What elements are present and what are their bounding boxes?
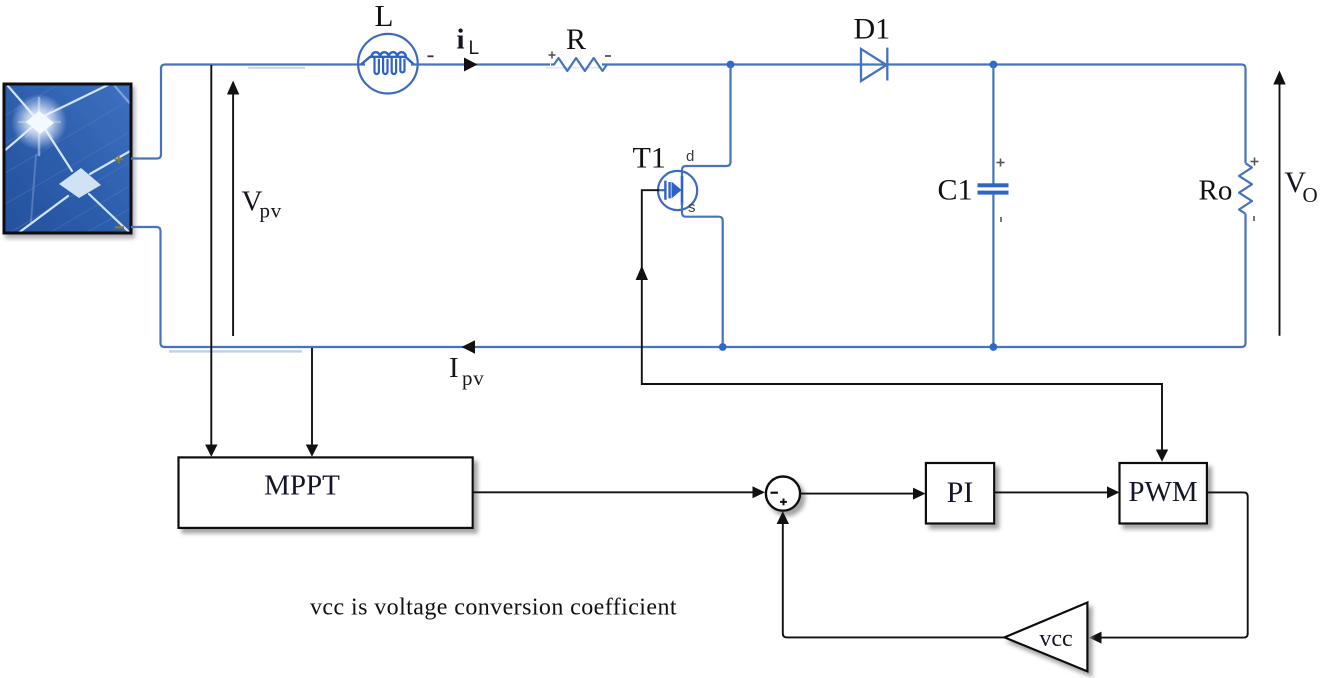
inductor L	[358, 34, 418, 94]
current arrow Ipv	[462, 340, 476, 354]
svg-text:pv: pv	[462, 366, 485, 390]
svg-text:vcc: vcc	[1039, 626, 1072, 652]
svg-text:L: L	[375, 0, 394, 33]
svg-text:vcc is voltage conversion coef: vcc is voltage conversion coefficient	[310, 595, 677, 621]
capacitor minus tick	[1000, 217, 1002, 222]
resistor R minus mark	[605, 55, 611, 57]
gain block vcc	[1005, 603, 1088, 672]
PWM block	[1120, 463, 1207, 524]
bright cell node (sun glint)	[11, 94, 67, 150]
svg-text:L: L	[469, 38, 480, 59]
current arrow iL	[464, 58, 478, 72]
highlight remnant top 2	[546, 67, 600, 69]
MPPT block	[179, 457, 473, 528]
gate line up-arrow	[636, 266, 648, 281]
panel - terminal	[115, 226, 124, 228]
node: top bus / mosfet drain	[727, 61, 735, 69]
wire mosfet drain	[682, 65, 731, 180]
svg-text:R: R	[566, 23, 586, 56]
measurement line A (Vpv sense)	[210, 65, 212, 445]
svg-text:C1: C1	[938, 174, 973, 207]
Ro minus tick	[1253, 216, 1255, 221]
arrow into sum bottom	[777, 511, 789, 524]
node: bottom bus / mosfet source	[719, 343, 727, 351]
wire capacitor top	[992, 65, 994, 184]
arrow into PWM	[1107, 486, 1120, 498]
mosfet T1	[658, 171, 697, 210]
arrow into sum	[753, 486, 766, 498]
svg-text:PWM: PWM	[1128, 476, 1197, 508]
lower light diamond cell node	[59, 168, 101, 198]
wire vcc gain to sum	[783, 524, 1005, 638]
capacitor plus mark	[997, 159, 1005, 167]
arrow into PWM top	[1156, 450, 1168, 462]
svg-text:O: O	[1303, 183, 1318, 207]
resistor R	[551, 58, 607, 71]
diode D1	[861, 48, 887, 81]
wire top bus right segment + right bus upper	[602, 65, 1246, 164]
wire sum to PI	[800, 493, 913, 495]
summing junction S1	[766, 477, 800, 511]
svg-text:D1: D1	[854, 13, 891, 46]
svg-text:MPPT: MPPT	[264, 470, 340, 502]
svg-text:I: I	[449, 352, 459, 384]
svg-text:PI: PI	[947, 476, 974, 509]
arrow into vcc gain	[1089, 632, 1102, 644]
resistor Ro	[1239, 163, 1252, 213]
svg-text:T1: T1	[633, 142, 666, 175]
wire PI to PWM	[994, 491, 1107, 493]
solar panel PV module	[0, 72, 140, 258]
node: bottom bus / capacitor	[990, 343, 998, 351]
Ro plus mark	[1251, 158, 1259, 166]
wire PV plus lead	[131, 67, 161, 159]
arrow into MPPT from line B	[306, 445, 318, 457]
Vo arrow	[1273, 71, 1285, 336]
wire MPPT to sum	[473, 491, 753, 493]
wire PV minus lead	[131, 227, 166, 347]
lens flare rays	[19, 98, 60, 222]
Vpv arrow	[227, 81, 239, 337]
PI block	[926, 463, 994, 524]
svg-text:Ro: Ro	[1199, 175, 1233, 207]
wire right bus lower + bottom bus	[165, 214, 1246, 347]
svg-text:s: s	[688, 199, 696, 216]
svg-text:pv: pv	[260, 199, 283, 223]
arrow into PI	[913, 488, 926, 500]
resistor R plus mark	[549, 52, 556, 59]
arrow into MPPT from line A	[205, 445, 217, 457]
wire mosfet source	[682, 202, 723, 347]
gate drive line	[642, 190, 1162, 450]
wire capacitor bottom	[992, 195, 994, 347]
highlight remnant bottom	[169, 350, 302, 352]
svg-text:i: i	[457, 24, 465, 56]
capacitor C1	[978, 183, 1009, 194]
panel + terminal	[115, 155, 124, 163]
svg-text:d: d	[686, 148, 694, 165]
measurement line B (Ipv sense)	[311, 348, 313, 445]
wire PWM output feedback	[1101, 492, 1248, 637]
wire top bus middle segment	[411, 63, 550, 65]
highlight remnant top	[248, 67, 305, 69]
wire top bus left segment	[161, 65, 365, 69]
minus after inductor	[428, 55, 434, 57]
node: top bus / capacitor	[990, 61, 998, 69]
